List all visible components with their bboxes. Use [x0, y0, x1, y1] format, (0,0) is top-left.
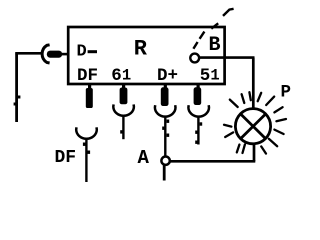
- pin D+ (blade terminal): [161, 85, 169, 107]
- label B: [209, 34, 221, 57]
- pin DF (blade terminal): [86, 85, 93, 109]
- socket connector 61 (cup): [113, 104, 134, 115]
- lamp rays: [224, 92, 286, 153]
- svg-text:61: 61: [111, 66, 131, 86]
- svg-text:P: P: [281, 83, 292, 103]
- wire lamp to node A: [170, 160, 256, 163]
- svg-text:D+: D+: [157, 66, 178, 86]
- label DF (lower, at socket): [55, 148, 77, 168]
- lamp P (circle with X): [235, 109, 270, 144]
- wire socket D+ down to node A: [162, 116, 169, 157]
- svg-text:A: A: [138, 147, 150, 169]
- svg-text:D: D: [77, 43, 87, 62]
- node A (open circle junction): [161, 157, 169, 165]
- svg-text:R: R: [134, 37, 148, 62]
- wire below socket 61: [120, 116, 123, 140]
- label P: [281, 83, 292, 103]
- label 61: [111, 66, 131, 86]
- label A: [138, 147, 150, 169]
- socket connector D+ (cup): [155, 105, 176, 116]
- pin 61 (blade terminal): [120, 85, 128, 105]
- svg-text:DF: DF: [77, 66, 98, 86]
- wire connector to box D-: [60, 53, 69, 56]
- plug connector D- pin (filled oval): [47, 51, 62, 58]
- socket connector DF (cup): [76, 127, 97, 138]
- wire lamp riser (down to lamp): [252, 58, 255, 109]
- wire B terminal to lamp riser: [199, 56, 254, 59]
- label DF (inside box): [77, 66, 98, 86]
- socket connector 51 (cup): [188, 105, 209, 116]
- wire D- from left: [15, 52, 42, 55]
- pin 51 (blade terminal): [194, 85, 202, 106]
- wire left vertical (to ground off frame): [14, 52, 21, 122]
- wire below socket DF: [83, 139, 90, 182]
- label D+: [157, 66, 178, 86]
- wire lamp bottom down: [253, 144, 256, 162]
- dashed switch line from B terminal: [193, 9, 233, 49]
- wire below node A: [163, 165, 166, 181]
- regulator box R: [68, 27, 224, 84]
- label D-: [77, 43, 98, 62]
- terminal B (open circle): [190, 54, 199, 63]
- svg-text:DF: DF: [55, 148, 77, 168]
- svg-text:B: B: [209, 34, 221, 57]
- label 51: [200, 66, 220, 86]
- label R: [134, 37, 148, 62]
- wire below socket 51: [195, 116, 202, 144]
- plug connector D- socket (arc): [42, 45, 49, 63]
- svg-text:51: 51: [200, 66, 220, 86]
